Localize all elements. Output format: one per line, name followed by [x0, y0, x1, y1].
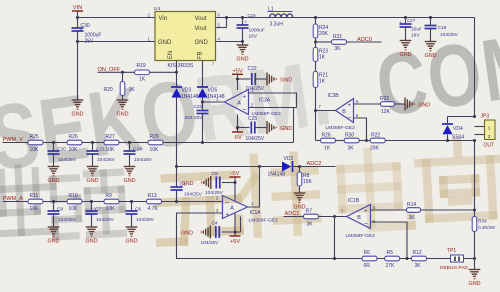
svg-text:C22: C22 — [248, 66, 257, 72]
resistor R12 — [412, 250, 427, 269]
diode VD3 1N4148 — [171, 87, 182, 98]
svg-text:GND: GND — [237, 57, 249, 63]
wire ADC1 — [284, 216, 304, 218]
svg-text:104/25V: 104/25V — [134, 157, 153, 163]
wire IC3A pin4 to -5V — [237, 115, 239, 133]
junction C7 — [90, 200, 93, 203]
svg-text:C6: C6 — [135, 207, 141, 213]
svg-text:C30: C30 — [81, 23, 90, 29]
capacitor C30 — [72, 28, 84, 31]
ground for shunt — [469, 270, 481, 288]
svg-text:ADC2: ADC2 — [307, 161, 322, 167]
ground for C24 — [124, 167, 136, 185]
svg-text:TP1: TP1 — [447, 248, 456, 254]
wire to R20 — [122, 72, 124, 81]
wire R22 to output rail — [385, 140, 475, 142]
svg-text:R25: R25 — [30, 134, 39, 140]
svg-text:10K: 10K — [106, 206, 116, 212]
junction IC3A output node — [201, 101, 204, 104]
resistor R26 — [321, 133, 336, 152]
svg-text:JP3: JP3 — [481, 114, 490, 120]
wire R21 down to feedback row — [315, 88, 317, 141]
wire R7 to IC1B output — [319, 216, 347, 218]
wire R11 to R10 — [43, 201, 68, 203]
wire to R8 — [299, 167, 301, 172]
junction output rail mid — [473, 139, 476, 142]
wire JP3 pin2 — [475, 134, 485, 136]
wire C8 to ground — [53, 214, 55, 227]
ground for C18 — [425, 42, 437, 60]
svg-text:GND: GND — [86, 239, 98, 245]
svg-text:−: − — [225, 200, 229, 207]
svg-text:3.3uH: 3.3uH — [270, 22, 284, 28]
svg-text:C9: C9 — [212, 171, 218, 177]
resistor R23 — [313, 48, 328, 62]
svg-text:1K: 1K — [129, 87, 136, 93]
junction output rail top — [473, 115, 476, 118]
wire C20 to ground — [53, 154, 55, 167]
junction R20 top — [121, 71, 124, 74]
svg-text:104/25V: 104/25V — [246, 136, 265, 142]
wire to C7 — [91, 202, 93, 212]
junction VD4 anode — [446, 139, 449, 142]
svg-text:VD2: VD2 — [284, 156, 294, 162]
svg-text:3K: 3K — [415, 263, 422, 269]
svg-text:1000uF: 1000uF — [249, 28, 265, 34]
connector JP3 — [485, 120, 496, 140]
wire to C8 — [53, 202, 55, 212]
svg-text:0R: 0R — [364, 263, 371, 269]
svg-text:VD4: VD4 — [453, 126, 463, 132]
wire C23 to PWM_V rail — [202, 114, 204, 143]
wire R26 to R30 — [336, 140, 345, 142]
junction R24 top — [314, 16, 317, 19]
svg-text:16V: 16V — [249, 33, 258, 39]
resistor R27 — [104, 134, 119, 153]
svg-text:+: + — [364, 209, 368, 215]
wire IC3B pin5 to R32 — [354, 103, 381, 105]
ground for C19 — [237, 45, 249, 63]
resistor R8 — [297, 172, 312, 186]
resistor R31 — [332, 34, 347, 52]
svg-text:GND: GND — [182, 181, 194, 187]
svg-text:R26: R26 — [69, 134, 78, 140]
svg-text:R26: R26 — [322, 133, 331, 139]
ground for C7 — [86, 227, 98, 245]
svg-text:R34: R34 — [478, 219, 487, 224]
svg-text:R7: R7 — [306, 209, 313, 215]
wire IC1B pin5 to R14 — [371, 209, 407, 211]
svg-text:EN: EN — [168, 51, 174, 59]
wire PWM_V rail to IC3A — [163, 142, 294, 144]
wire IC1A pin3 feedback rail — [177, 213, 475, 259]
svg-text:R29: R29 — [150, 134, 159, 140]
wire to C25 — [238, 127, 250, 129]
wire to R13 — [119, 201, 147, 203]
svg-text:+: + — [399, 20, 402, 25]
svg-text:104/25V: 104/25V — [201, 240, 220, 246]
svg-text:104/25V: 104/25V — [96, 217, 115, 223]
svg-text:R22: R22 — [371, 133, 380, 139]
wire to C3 — [176, 167, 178, 187]
svg-text:10K: 10K — [69, 206, 79, 212]
wire VD3 anode down — [176, 98, 178, 167]
wire to C6 — [131, 202, 133, 212]
svg-text:VIN: VIN — [73, 5, 82, 11]
svg-text:1: 1 — [488, 126, 491, 132]
wire R19 to EN — [150, 71, 177, 73]
svg-text:+5V: +5V — [232, 68, 242, 74]
junction C25 tap — [236, 126, 239, 129]
wire C4 to pin4 — [222, 231, 241, 233]
wire C18 to ground — [430, 29, 432, 42]
wire to C19 — [242, 18, 244, 26]
junction C20 — [52, 141, 55, 144]
wire C25 to ground — [255, 127, 267, 129]
svg-text:GND: GND — [124, 178, 136, 184]
svg-text:Vout: Vout — [195, 16, 207, 22]
svg-text:R31: R31 — [333, 34, 342, 40]
svg-text:C20: C20 — [57, 147, 66, 153]
svg-text:FB: FB — [198, 51, 204, 59]
wire to ground — [242, 42, 244, 45]
wire EN net to VD2 — [177, 166, 260, 168]
svg-text:GND: GND — [158, 40, 172, 46]
svg-text:GND: GND — [48, 178, 60, 184]
wire to R31 — [316, 41, 332, 43]
svg-text:1N4148: 1N4148 — [268, 172, 286, 178]
junction C3 top — [175, 165, 178, 168]
wire R8 to ground — [299, 187, 301, 194]
svg-text:104/25V: 104/25V — [205, 190, 224, 196]
inductor L1 — [268, 7, 293, 28]
wire to C20 — [53, 143, 55, 151]
wire EN pin down — [176, 61, 178, 88]
svg-text:20K: 20K — [370, 146, 380, 152]
wire to ground — [474, 259, 476, 270]
wire R30 to R22 — [359, 140, 371, 142]
svg-text:GND: GND — [280, 126, 292, 132]
svg-text:104/25V: 104/25V — [97, 157, 116, 163]
ground for R32 — [405, 98, 430, 111]
diode VD5 1N4148 — [197, 87, 208, 98]
svg-text:KIS-3R33S: KIS-3R33S — [168, 63, 194, 69]
op-amp IC1A — [223, 196, 248, 219]
svg-text:10uF: 10uF — [411, 27, 422, 33]
wire PWM_V — [3, 142, 29, 144]
watermark chinese — [0, 139, 500, 252]
capacitor C7 — [86, 211, 98, 214]
junction C24 — [128, 141, 131, 144]
svg-text:R13: R13 — [148, 193, 157, 199]
resistor R20 — [104, 82, 136, 96]
wire IC3A pin2 to PWM_V rail — [249, 108, 297, 143]
wire IC3B output — [316, 110, 336, 112]
svg-text:GND: GND — [418, 102, 430, 108]
svg-text:+: + — [243, 94, 247, 100]
wire VIN to U1 pin2 — [78, 17, 156, 19]
wire pin5 — [216, 27, 227, 29]
power VIN — [72, 5, 83, 11]
junction shunt top — [473, 209, 476, 212]
junction C8 — [52, 200, 55, 203]
svg-text:GND: GND — [469, 281, 481, 287]
wire pin4 stub — [240, 217, 242, 233]
ground for C8 — [48, 227, 60, 245]
op-amp IC3A — [225, 90, 249, 115]
junction C19/pin4 — [241, 40, 244, 43]
junction C6 — [130, 200, 133, 203]
diode VD2 1N4148 — [282, 161, 293, 172]
svg-text:3K: 3K — [348, 146, 355, 152]
svg-text:IC3A: IC3A — [259, 98, 271, 104]
svg-text:GND: GND — [117, 112, 129, 118]
junction C21 — [91, 141, 94, 144]
ground for C9 — [182, 176, 211, 189]
wire to U1 pin1 GND — [78, 41, 156, 43]
resistor R32 — [380, 96, 395, 115]
junction IC3B output — [314, 109, 317, 112]
svg-text:1K: 1K — [324, 146, 331, 152]
svg-text:10K: 10K — [69, 147, 79, 153]
svg-text:PWM_V: PWM_V — [3, 137, 24, 143]
wire C24 to ground — [129, 154, 131, 167]
svg-text:10K: 10K — [30, 206, 40, 212]
resistor R21 — [313, 72, 328, 88]
svg-text:LM358F-GE2: LM358F-GE2 — [326, 125, 356, 131]
ground for R20 — [117, 100, 129, 118]
resistor R24 — [313, 24, 328, 38]
power -5V IC3A — [232, 132, 243, 141]
regulator module U1 KIS-3R33S — [154, 6, 216, 61]
wire IC1A pin4 to +5V — [234, 213, 236, 236]
wire R20 to ground — [122, 96, 124, 101]
ground for C21 — [87, 167, 99, 185]
watermark SEKORM.COM — [0, 12, 500, 191]
svg-text:3K: 3K — [335, 46, 342, 52]
svg-text:3K: 3K — [409, 215, 416, 221]
svg-text:333 25V: 333 25V — [185, 115, 204, 121]
junction C18 top — [429, 16, 432, 19]
wire C7 to ground — [91, 214, 93, 227]
junction R8 top — [298, 165, 301, 168]
svg-text:1/4: 1/4 — [154, 6, 161, 12]
svg-text:C24: C24 — [133, 147, 142, 153]
wire to R29 — [119, 142, 149, 144]
svg-text:R19: R19 — [137, 63, 146, 69]
svg-text:C8: C8 — [57, 207, 63, 213]
svg-text:1K: 1K — [319, 79, 326, 85]
svg-text:104/25V: 104/25V — [440, 32, 459, 38]
junction C9 tap — [234, 181, 237, 184]
wire output rail down — [474, 18, 476, 117]
svg-text:−: − — [364, 221, 368, 228]
wire VD4 to output rail — [448, 116, 475, 118]
svg-text:104/25V: 104/25V — [58, 157, 77, 163]
svg-text:20K: 20K — [319, 31, 329, 37]
op-amp IC3B — [336, 99, 354, 123]
svg-text:R14: R14 — [407, 202, 416, 208]
wire to C18 — [430, 18, 432, 26]
svg-text:R9: R9 — [106, 193, 113, 199]
junction ADC0 node — [314, 41, 317, 44]
svg-text:GND: GND — [48, 239, 60, 245]
svg-text:A: A — [230, 206, 234, 212]
wire to R27 — [82, 142, 105, 144]
wire VD4 anode — [447, 135, 449, 141]
resistor R11 — [28, 193, 43, 212]
wire VD5 anode — [202, 98, 204, 111]
resistor R13 — [147, 193, 162, 212]
capacitor C9 — [216, 177, 220, 189]
resistor R6 — [362, 250, 377, 269]
svg-text:GND: GND — [72, 112, 84, 118]
capacitor C18 — [425, 26, 437, 29]
wire R23 to R21 — [315, 62, 317, 72]
wire PWM_A — [3, 201, 29, 203]
junction feedback node — [365, 139, 368, 142]
svg-text:LM358F-GE2: LM358F-GE2 — [346, 233, 376, 239]
svg-text:+: + — [245, 20, 248, 25]
wire IC3A pin3 — [249, 93, 297, 108]
svg-text:-5V: -5V — [233, 135, 242, 141]
capacitor C4 — [216, 226, 220, 238]
wire ON_OFF — [98, 71, 135, 73]
svg-text:GND: GND — [280, 77, 292, 83]
junction C30 bottom — [76, 40, 79, 43]
svg-text:-5V: -5V — [231, 171, 240, 177]
resistor R25 — [28, 134, 43, 153]
capacitor C27 — [400, 24, 412, 27]
test point TP1 DEBUG PAD — [451, 255, 464, 262]
wire JP3 pin1 — [475, 126, 485, 128]
svg-text:C27: C27 — [407, 18, 416, 23]
power +5V IC3A — [232, 68, 243, 74]
capacitor C6 — [126, 211, 138, 214]
capacitor C21 — [87, 151, 99, 154]
wire node to R23 — [315, 42, 317, 48]
svg-text:GND: GND — [294, 205, 306, 211]
wire C6 to ground — [131, 214, 133, 227]
svg-text:OUT: OUT — [484, 143, 495, 149]
svg-text:2: 2 — [488, 134, 491, 140]
svg-text:GND: GND — [126, 239, 138, 245]
svg-text:+: + — [225, 212, 229, 218]
capacitor C25 — [251, 122, 255, 134]
wire C27 to ground — [405, 28, 407, 41]
svg-text:10K: 10K — [30, 147, 40, 153]
resistor R9 — [104, 193, 119, 212]
svg-text:C25: C25 — [248, 116, 257, 122]
svg-text:104/25V: 104/25V — [58, 217, 77, 223]
svg-text:+5V: +5V — [230, 239, 240, 245]
wire to C30 — [77, 18, 79, 28]
svg-text:GND: GND — [87, 178, 99, 184]
svg-text:C4: C4 — [212, 221, 218, 227]
wire R34 to rail — [474, 232, 476, 259]
wire C3 down — [176, 190, 178, 202]
resistor R7 — [304, 209, 319, 228]
capacitor C8 — [48, 211, 60, 214]
wire to C22 — [238, 78, 251, 80]
ground for C4 — [181, 226, 210, 239]
svg-text:R32: R32 — [380, 96, 389, 102]
svg-text:IC3B: IC3B — [328, 93, 340, 99]
ground for C6 — [126, 227, 138, 245]
resistor R30 — [344, 133, 359, 152]
svg-text:−: − — [347, 115, 351, 122]
svg-text:A: A — [237, 100, 241, 106]
svg-text:15K: 15K — [303, 179, 313, 185]
svg-text:R27: R27 — [106, 134, 115, 140]
capacitor C24 — [124, 151, 136, 154]
svg-text:10K: 10K — [106, 147, 116, 153]
wire Vout rail — [216, 17, 475, 19]
svg-text:Vin: Vin — [159, 16, 168, 22]
junction pin5/pin6 — [225, 16, 228, 19]
wire down to rail — [334, 217, 336, 259]
svg-text:LM358F-GE2: LM358F-GE2 — [249, 218, 279, 224]
wire to R26 — [316, 140, 321, 142]
ground for R8 — [294, 193, 306, 211]
wire IC3A output to VD5 — [203, 101, 225, 103]
svg-text:R6: R6 — [364, 250, 371, 256]
svg-text:VD3: VD3 — [182, 88, 192, 94]
junction rail mid — [406, 257, 409, 260]
junction C23 bottom — [201, 141, 204, 144]
capacitor C22 — [252, 73, 256, 85]
svg-text:R20: R20 — [104, 87, 113, 93]
svg-text:R10: R10 — [69, 193, 78, 199]
wire C9 to pin8 — [222, 182, 235, 184]
resistor R34 — [472, 217, 496, 232]
svg-text:R11: R11 — [30, 193, 39, 199]
wire IC1B pin6 feedback — [371, 222, 408, 259]
svg-text:104/25V: 104/25V — [136, 217, 155, 223]
resistor R19 — [135, 63, 150, 83]
junction R7/IC1B — [333, 215, 336, 218]
svg-text:4.7K: 4.7K — [148, 206, 159, 212]
ground for C20 — [48, 167, 60, 185]
wire output rail to R34 — [474, 141, 476, 217]
wire R31 to ADC0 — [347, 41, 382, 43]
svg-text:+: + — [348, 103, 352, 109]
junction EN node — [175, 71, 178, 74]
resistor R22 — [370, 133, 385, 152]
wire to ground — [77, 42, 79, 100]
svg-text:GND: GND — [425, 53, 437, 59]
ground for C30 — [72, 100, 84, 118]
svg-text:SS34: SS34 — [452, 134, 464, 140]
wire VIN stem — [77, 11, 79, 18]
wire to R24 — [315, 18, 317, 25]
wire FB pin down — [202, 61, 204, 88]
wire IC1A output riser — [248, 167, 260, 208]
svg-text:Vout: Vout — [195, 26, 207, 32]
junction rail left — [333, 257, 336, 260]
power -5V IC1A — [230, 171, 241, 177]
wire pin4 GND — [216, 41, 243, 43]
wire VD2 to ADC2 — [293, 166, 336, 168]
svg-text:12K: 12K — [381, 109, 391, 115]
svg-text:C23: C23 — [194, 104, 203, 110]
wire to R9 — [82, 201, 105, 203]
svg-text:C21: C21 — [96, 147, 105, 153]
svg-text:B: B — [342, 109, 346, 115]
wire R14 to shunt top — [421, 209, 475, 211]
svg-text:3K: 3K — [307, 222, 314, 228]
wire to C21 — [92, 143, 94, 151]
